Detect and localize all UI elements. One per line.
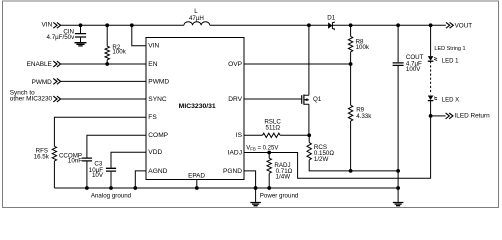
ground power ground symbol (COUT) — [397, 188, 399, 202]
wire Q1 source down — [308, 104, 310, 135]
wire CCOMP to ground rail — [86, 162, 88, 189]
capacitor CIN — [80, 25, 82, 42]
wire COMP to CCOMP — [87, 135, 146, 157]
svg-text:1/4W: 1/4W — [276, 174, 291, 181]
diode LED X — [428, 96, 434, 101]
svg-text:10nF: 10nF — [68, 158, 82, 165]
transistor Q1 N-MOSFET — [244, 98, 301, 100]
wire OVP to divider — [244, 63, 351, 65]
svg-text:16.5k: 16.5k — [34, 154, 50, 161]
svg-text:Power ground: Power ground — [260, 192, 299, 199]
node VOUT output connector — [446, 22, 453, 28]
node junction COUT top — [396, 23, 400, 27]
svg-text:511Ω: 511Ω — [266, 124, 281, 131]
svg-text:VIN: VIN — [148, 43, 159, 50]
svg-text:VIN: VIN — [42, 22, 53, 29]
wire EPAD to ground rail — [196, 180, 198, 189]
svg-text:MIC3230/31: MIC3230/31 — [179, 103, 216, 110]
wire C3 to ground rail — [110, 172, 112, 188]
node junction R9 bottom — [349, 169, 353, 173]
wire ENABLE to EN pin — [61, 63, 146, 65]
resistor RSLC — [263, 133, 281, 137]
wire dashed LED string — [430, 61, 432, 94]
svg-text:4.33k: 4.33k — [356, 113, 372, 120]
wire VDD to C3 — [111, 152, 146, 167]
wire AGND to ground rail — [135, 171, 146, 188]
svg-text:10V: 10V — [92, 172, 104, 179]
node junction EPAD ground — [195, 186, 199, 190]
node junction R2 — [105, 23, 109, 27]
node junction PGND ground — [254, 186, 258, 190]
wire PWMD to PWMD pin — [61, 80, 146, 82]
op-amp U1 MIC3230/31 IC body — [146, 38, 244, 180]
svg-text:VOUT: VOUT — [455, 23, 473, 30]
resistor R9 — [350, 64, 352, 171]
node junction RSLC to Q1 source — [307, 133, 311, 137]
wire IS to RSLC — [244, 134, 309, 136]
wire PGND to ground rail — [244, 171, 256, 188]
svg-text:LED String 1: LED String 1 — [434, 46, 465, 52]
node junction RADJ top — [267, 151, 271, 155]
capacitor CCOMP — [82, 158, 92, 161]
capacitor COUT — [397, 25, 399, 188]
svg-text:EN: EN — [148, 61, 157, 68]
node junction ILED return — [429, 114, 433, 118]
resistor RFS — [52, 146, 56, 161]
svg-text:AGND: AGND — [148, 168, 167, 175]
node junction CIN — [79, 23, 83, 27]
node junction AGND ground — [133, 186, 137, 190]
node junction C3 ground — [109, 186, 113, 190]
wire RFS to ground rail — [53, 161, 55, 188]
wire LED string top — [430, 25, 432, 56]
ground power ground symbol (PGND) — [255, 188, 257, 202]
capacitor C3 — [106, 168, 116, 171]
wire Q1 drain to top rail — [308, 25, 310, 95]
node junction R8 top — [349, 23, 353, 27]
svg-text:D1: D1 — [327, 14, 335, 21]
node junction COUT bottom line — [396, 169, 400, 173]
node junction Q1 drain — [307, 23, 311, 27]
svg-text:VDD: VDD — [148, 149, 162, 156]
svg-text:VFB = 0.25V: VFB = 0.25V — [246, 146, 278, 152]
resistor RADJ — [268, 153, 270, 189]
svg-text:47µH: 47µH — [189, 15, 204, 22]
svg-text:100k: 100k — [356, 44, 370, 51]
svg-text:ILED Return: ILED Return — [455, 113, 491, 120]
svg-text:Analog ground: Analog ground — [91, 192, 132, 199]
svg-text:SYNC: SYNC — [148, 96, 167, 103]
svg-text:ENABLE: ENABLE — [27, 61, 52, 68]
wire FS to RFS — [54, 117, 146, 146]
node junction RADJ bottom — [267, 186, 271, 190]
wire ground rail — [54, 187, 398, 189]
svg-text:OVP: OVP — [228, 61, 243, 68]
resistor R8 — [350, 25, 352, 64]
node junction CCOMP ground — [85, 186, 89, 190]
svg-text:100V: 100V — [406, 66, 421, 73]
wire VIN pin drop — [132, 25, 146, 46]
wire LED X cathode down — [430, 101, 432, 116]
svg-text:LED 1: LED 1 — [442, 59, 459, 65]
svg-text:LED X: LED X — [442, 97, 459, 103]
svg-text:other MIC3230: other MIC3230 — [10, 96, 53, 103]
wire VIN rail — [61, 24, 446, 26]
svg-text:COMP: COMP — [148, 132, 168, 139]
node junction R2 bottom on EN line — [105, 62, 109, 66]
svg-text:Q1: Q1 — [313, 96, 322, 103]
svg-text:PGND: PGND — [223, 168, 242, 175]
svg-text:1/2W: 1/2W — [314, 156, 329, 163]
wire SYNC to SYNC pin — [61, 98, 146, 100]
svg-text:IADJ: IADJ — [228, 149, 242, 156]
node junction COUT ground — [396, 186, 400, 190]
wire ILED return to connector — [431, 115, 446, 117]
svg-text:4.7µF/50v: 4.7µF/50v — [47, 34, 76, 41]
svg-text:DRV: DRV — [228, 96, 242, 103]
wire RCS/R9/COUT bottom line — [351, 170, 399, 172]
node ILED Return output connector — [446, 113, 453, 119]
svg-text:PWMD: PWMD — [148, 78, 169, 85]
node junction VIN-pin drop — [130, 23, 134, 27]
resistor R2 — [106, 25, 108, 64]
svg-text:100k: 100k — [112, 49, 126, 56]
svg-text:PWMD: PWMD — [32, 79, 53, 86]
node junction OVP divider — [349, 62, 353, 66]
svg-text:IS: IS — [236, 132, 243, 139]
ground CIN analog ground symbol — [75, 43, 87, 46]
wire IADJ to ILED return — [244, 116, 431, 178]
diode LED 1 — [428, 56, 434, 61]
svg-text:EPAD: EPAD — [188, 172, 205, 179]
svg-text:FS: FS — [148, 114, 157, 121]
node junction LED string top — [429, 23, 433, 27]
resistor RCS — [309, 135, 350, 171]
